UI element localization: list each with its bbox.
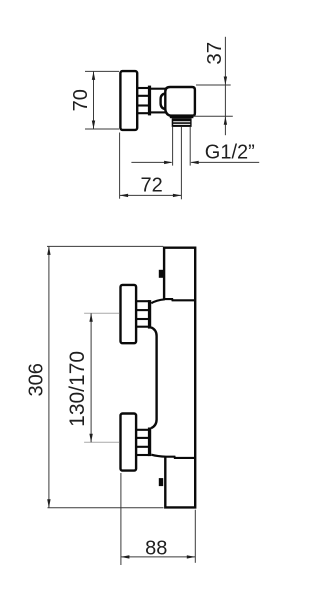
button tick on top block bbox=[159, 270, 163, 278]
dimension 72: arrow left bbox=[120, 194, 129, 197]
top mount: step line 2 bbox=[137, 309, 150, 311]
tube left edge between mounts bbox=[151, 327, 157, 428]
top mount: step line 3 bbox=[137, 318, 150, 320]
dimension 306: dimension line bbox=[48, 246, 50, 507]
dimension 70: arrow up bbox=[92, 71, 95, 80]
center line top mount (gray) bbox=[84, 312, 119, 314]
valve neck bottom edge bbox=[151, 111, 166, 113]
dimension 130/170: dimension line bbox=[90, 313, 92, 442]
bottom mount: step line 3 bbox=[137, 446, 150, 448]
step line 3 bbox=[138, 104, 149, 106]
dimension 130/170: arrow down bbox=[89, 434, 92, 443]
dimension 88: extension line left bbox=[120, 473, 122, 565]
dimension 306: arrow down bbox=[47, 499, 50, 508]
dimension 70: extension line top bbox=[85, 70, 119, 72]
dimension G1/2: left leader with arrow bbox=[131, 161, 171, 163]
dimension 37: arrow up to bottom ext bbox=[224, 116, 227, 125]
svg-text:G1/2”: G1/2” bbox=[205, 142, 255, 164]
bottom escutcheon bbox=[121, 414, 137, 471]
dimension 37: extension line top bbox=[196, 84, 231, 86]
connection bar (vertical flange) bbox=[148, 86, 151, 116]
dimension 70: dimension line bbox=[93, 71, 95, 129]
dimension 306: extension line bottom bbox=[48, 507, 164, 509]
button tick on bottom block bbox=[159, 478, 163, 486]
dimension 88: extension line right bbox=[194, 510, 196, 563]
top mount: step line 4 bbox=[137, 326, 150, 328]
outlet nut (threaded) bbox=[172, 118, 192, 127]
bottom mount: step line 1 bbox=[137, 429, 150, 431]
escutcheon (wall plate, side view) bbox=[120, 71, 137, 130]
outlet thread extension line right bbox=[189, 127, 191, 166]
dimension 70: extension line bottom bbox=[85, 128, 119, 130]
curve from bar into bottom block top edge bbox=[151, 455, 195, 458]
dimension 70: arrow down bbox=[92, 121, 95, 130]
dimension 37: arrow down to top ext bbox=[224, 77, 227, 86]
valve body (side view) bbox=[165, 87, 195, 116]
svg-text:88: 88 bbox=[145, 537, 167, 559]
thermostat body outline: top block and right edge and bottom bbox=[164, 248, 195, 508]
outlet center extension line bbox=[180, 127, 182, 199]
step line 2 bbox=[138, 95, 149, 97]
dimension G1/2: right leader with arrow bbox=[191, 161, 259, 163]
dimension 306: extension line top bbox=[47, 245, 163, 247]
dimension 37: extension line bottom bbox=[193, 115, 233, 117]
dimension 306: arrow up bbox=[47, 246, 50, 255]
dimension 37: dimension line bbox=[224, 37, 226, 135]
top mount: step line 1 bbox=[137, 300, 150, 302]
bottom mount: connection bar bbox=[148, 428, 151, 457]
dimension 130/170: arrow up bbox=[89, 313, 92, 322]
dimension 72: extension line left (wall) bbox=[119, 133, 121, 199]
valve neck top edge bbox=[151, 88, 166, 90]
svg-text:70: 70 bbox=[70, 89, 92, 111]
svg-text:130/170: 130/170 bbox=[66, 351, 89, 427]
thread groove 2 bbox=[173, 123, 190, 125]
outlet thread extension line left bbox=[172, 127, 174, 166]
dimension 88: dimension line bbox=[121, 556, 195, 558]
top block bottom edge (with jog) bbox=[164, 299, 195, 300]
top mount: connection bar bbox=[148, 300, 151, 329]
dimension 72: dimension line bbox=[120, 194, 182, 196]
bottom mount: step line 2 bbox=[137, 437, 150, 439]
outlet flange bbox=[170, 114, 194, 118]
bottom mount: step line 4 bbox=[137, 454, 150, 456]
handle rim arc bbox=[161, 93, 166, 109]
step line 1 (supply connection) bbox=[138, 87, 149, 89]
svg-text:72: 72 bbox=[140, 175, 162, 197]
svg-text:37: 37 bbox=[203, 42, 226, 65]
thread groove 1 bbox=[173, 121, 190, 123]
svg-text:306: 306 bbox=[25, 363, 47, 396]
center line bottom mount (gray) bbox=[84, 441, 119, 443]
dimension 72: arrow right bbox=[173, 194, 182, 197]
curve from top block corner to bar bbox=[151, 299, 165, 303]
top escutcheon (front view side) bbox=[121, 285, 137, 343]
dimension 88: arrow right bbox=[187, 555, 196, 558]
dimension 88: arrow left bbox=[121, 555, 129, 558]
step line 4 bbox=[138, 112, 149, 114]
